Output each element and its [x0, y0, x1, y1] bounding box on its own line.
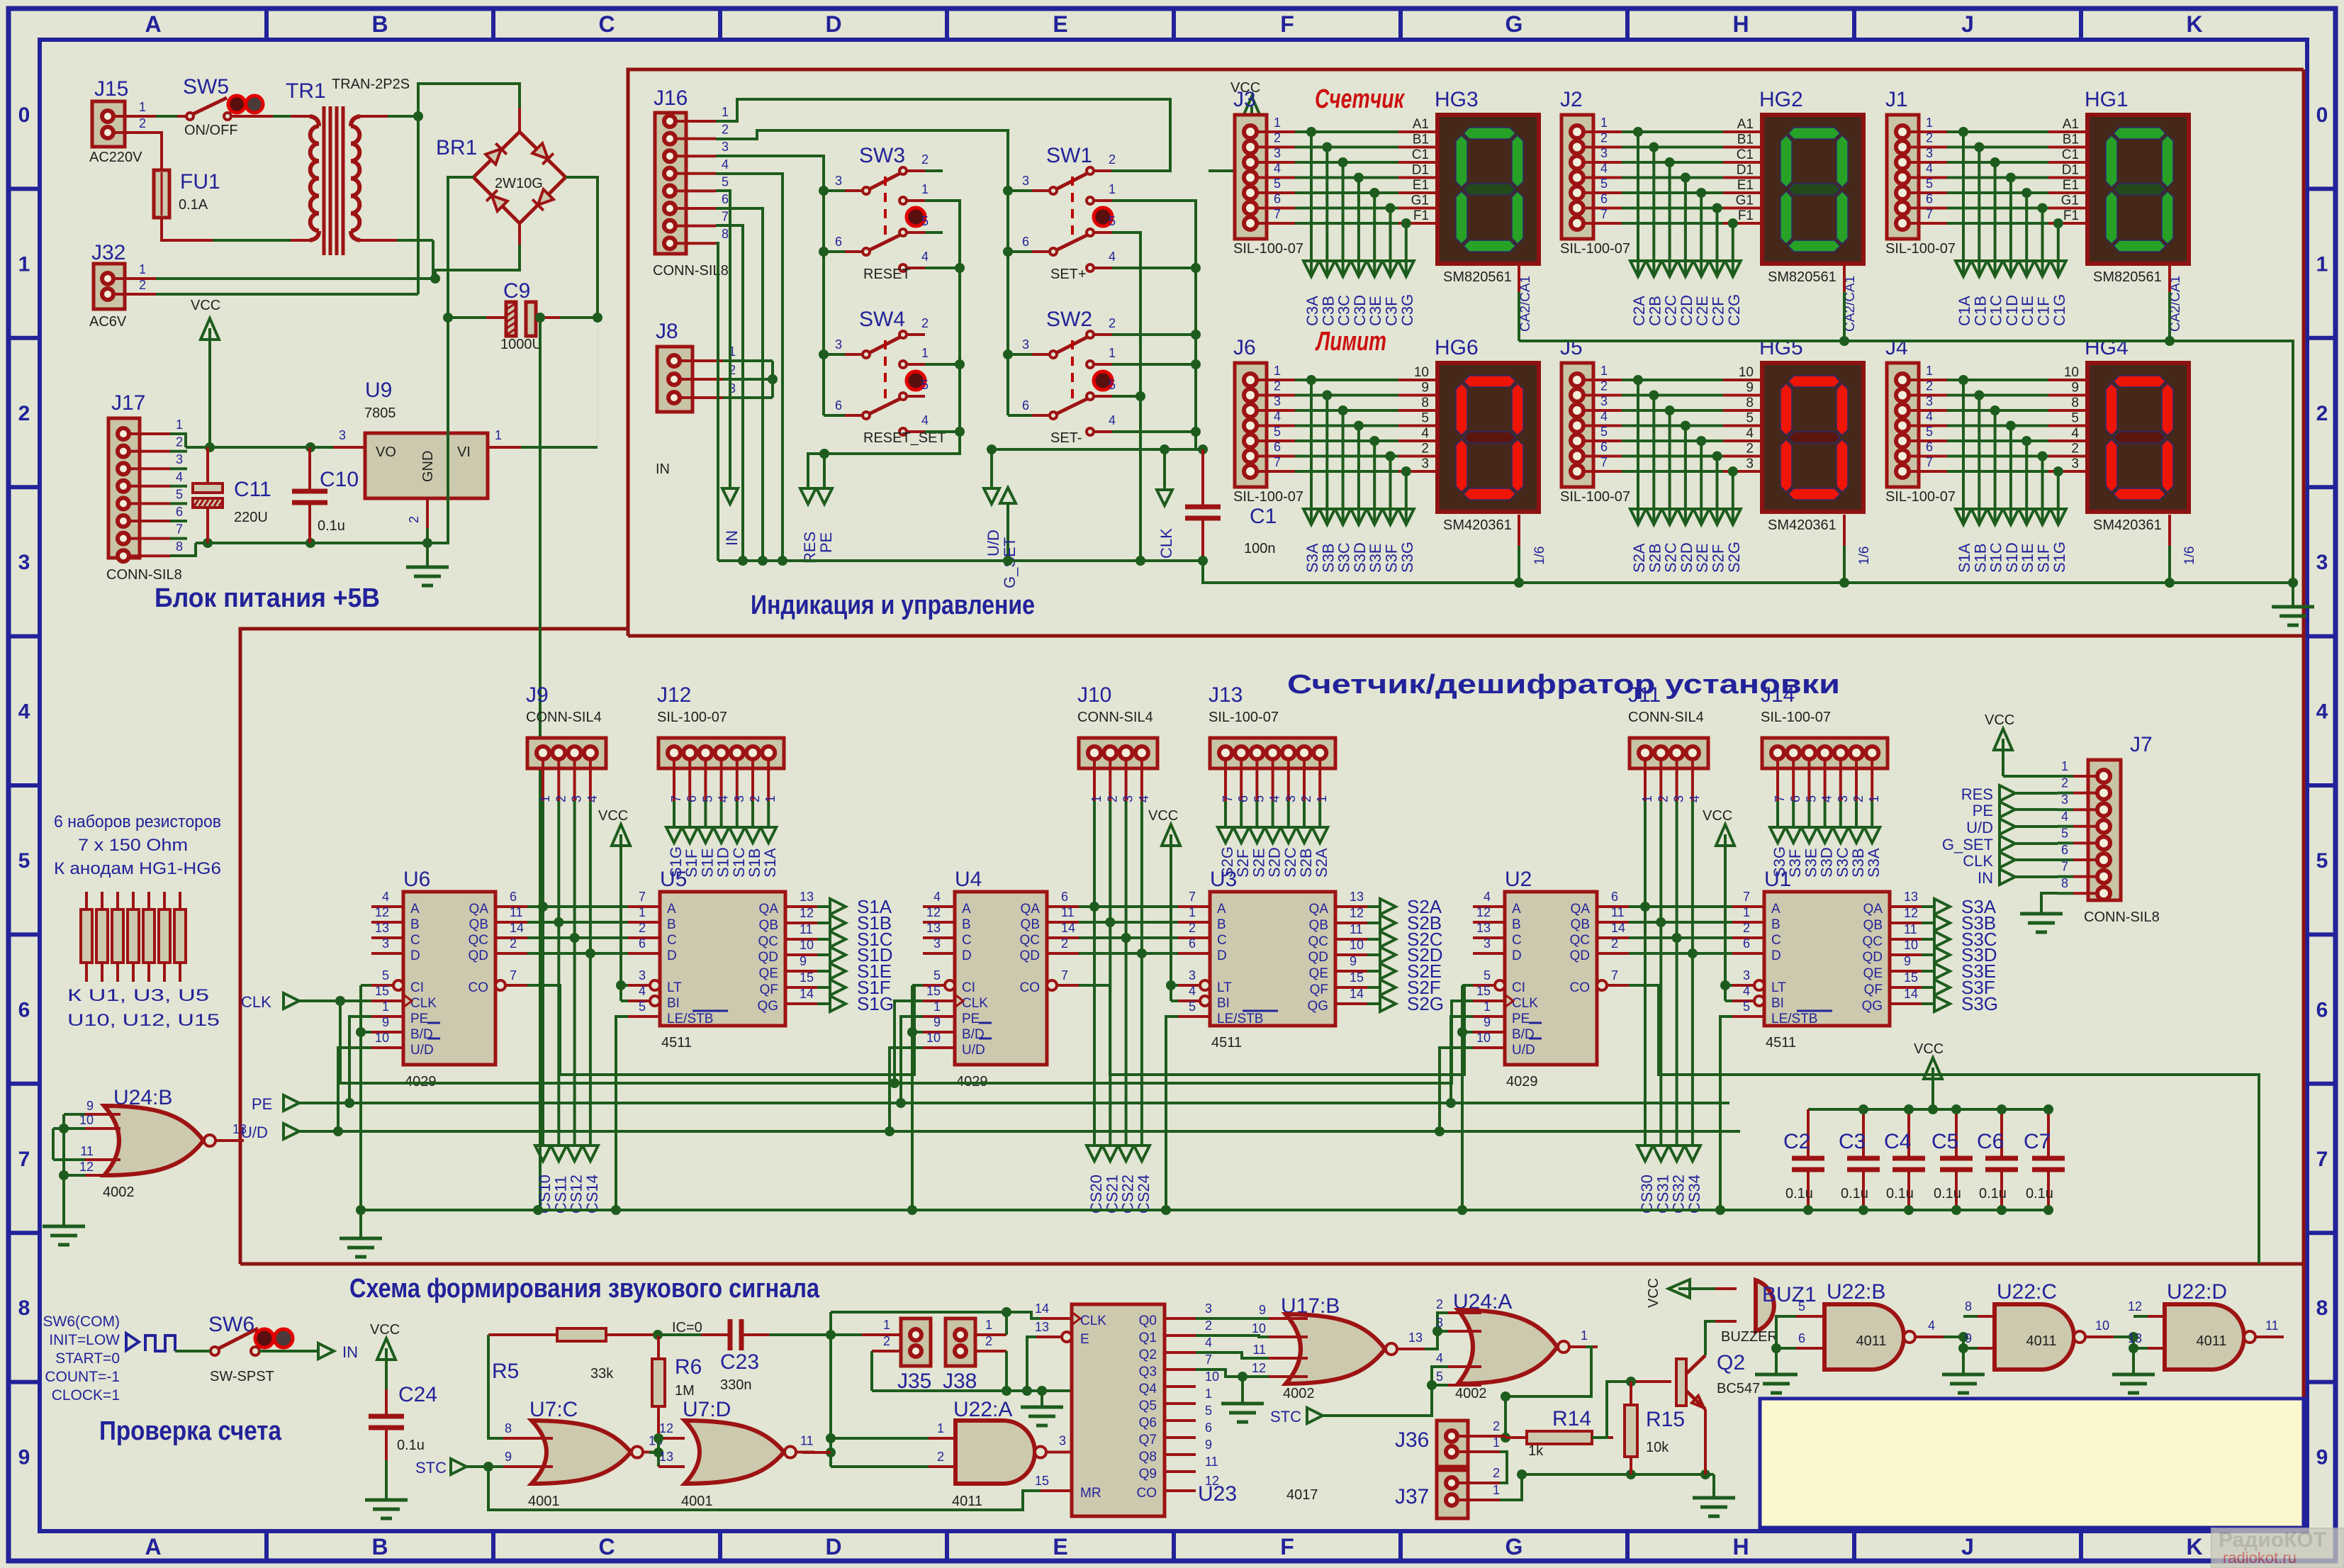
svg-text:B: B — [667, 917, 676, 932]
connector J9 — [526, 683, 606, 802]
svg-text:Q2: Q2 — [1717, 1351, 1745, 1374]
wire SET row to C1 node — [992, 448, 1203, 451]
svg-text:0: 0 — [2316, 103, 2328, 127]
wire VCC to U3 LT BI — [1166, 846, 1178, 1001]
wire CO U2 out — [1629, 985, 2259, 1264]
svg-text:SM820561: SM820561 — [1768, 269, 1836, 285]
svg-text:C1A: C1A — [1956, 296, 1973, 326]
svg-text:9: 9 — [933, 1015, 941, 1029]
wire U9 GND to ground — [426, 528, 429, 567]
terminal IN right — [318, 1343, 358, 1361]
svg-text:SIL-100-07: SIL-100-07 — [1885, 489, 1956, 505]
svg-text:RES: RES — [1961, 785, 1993, 803]
7-seg display HG6 — [1435, 336, 1547, 565]
power terminal VCC J7 — [1985, 712, 2058, 776]
svg-text:6: 6 — [835, 398, 842, 413]
svg-text:C1F: C1F — [2035, 296, 2053, 326]
svg-text:2: 2 — [1436, 1297, 1443, 1311]
signal arrow S3E — [1922, 961, 1996, 982]
svg-text:6: 6 — [1205, 1421, 1212, 1435]
svg-text:GND: GND — [420, 451, 436, 482]
svg-text:S1C: S1C — [1987, 542, 2005, 573]
svg-text:5: 5 — [1274, 425, 1281, 439]
wire J6 pin6 to HG6 — [1257, 440, 1437, 461]
svg-text:U/D: U/D — [985, 530, 1002, 556]
svg-text:2: 2 — [1746, 442, 1754, 457]
svg-text:4011: 4011 — [2196, 1333, 2226, 1349]
svg-text:4: 4 — [1137, 795, 1151, 802]
svg-text:S2A: S2A — [1630, 543, 1648, 573]
wire U1 LE strobe to bus — [1715, 1017, 1732, 1215]
svg-text:CA2/CA1: CA2/CA1 — [1518, 276, 1533, 332]
wire J15 pin2 to fuse — [113, 131, 149, 134]
svg-text:J36: J36 — [1395, 1428, 1429, 1452]
svg-text:QF: QF — [760, 982, 778, 997]
svg-text:2: 2 — [921, 316, 929, 330]
svg-text:QA: QA — [1571, 902, 1591, 917]
wire segment drop S2B — [1646, 396, 1661, 525]
wire QD bus x569 — [527, 948, 628, 958]
svg-text:7: 7 — [2061, 860, 2068, 874]
wire segment drop S2F — [1710, 457, 1725, 525]
svg-text:5: 5 — [1189, 999, 1196, 1014]
svg-text:12: 12 — [800, 906, 814, 920]
power terminal VCC capacitors — [1914, 1041, 1944, 1114]
svg-text:D: D — [825, 1534, 841, 1559]
svg-text:C2G: C2G — [1725, 294, 1743, 326]
ground E area — [1021, 1386, 1063, 1426]
svg-text:13: 13 — [1476, 921, 1491, 935]
wire segment drop C2E — [1693, 193, 1709, 276]
svg-text:C10: C10 — [320, 468, 359, 491]
svg-text:E1: E1 — [2063, 178, 2079, 193]
svg-text:4011: 4011 — [2026, 1333, 2056, 1349]
wire J4 pin7 to HG4 — [1909, 455, 2087, 476]
svg-text:C: C — [667, 933, 677, 948]
svg-text:CS30: CS30 — [1638, 1175, 1656, 1214]
wire segment SW left column — [824, 414, 845, 417]
svg-text:U9: U9 — [365, 379, 392, 402]
power terminal VCC buzzer — [1646, 1278, 1690, 1308]
svg-text:9: 9 — [1205, 1438, 1212, 1452]
svg-text:9: 9 — [1746, 381, 1754, 396]
wire J7 pin8 to ground — [2041, 893, 2058, 914]
connector J6 — [1233, 336, 1303, 505]
svg-text:CO: CO — [469, 980, 489, 995]
terminal RES J7 — [1961, 785, 2058, 803]
svg-text:C: C — [1217, 933, 1227, 948]
svg-text:3: 3 — [1672, 795, 1686, 802]
title block area — [1760, 1399, 2304, 1528]
svg-text:C5: C5 — [1931, 1130, 1958, 1153]
svg-text:CI: CI — [1512, 980, 1525, 995]
wire segment column CS34 — [1685, 801, 1700, 1161]
svg-text:BUZ1: BUZ1 — [1762, 1283, 1817, 1306]
svg-text:CONN-SIL4: CONN-SIL4 — [1628, 710, 1704, 725]
counter U6 4029 — [371, 868, 527, 1090]
wire segment drop C3G — [1398, 223, 1414, 276]
svg-text:10: 10 — [1476, 1031, 1491, 1045]
svg-text:S3C: S3C — [1335, 542, 1353, 573]
wire STC net down to MR — [488, 1467, 1041, 1510]
wire J36 pin1 to J37 pin2 — [1500, 1452, 1507, 1483]
svg-text:0.1u: 0.1u — [2026, 1186, 2053, 1202]
svg-text:12: 12 — [79, 1160, 94, 1174]
svg-text:3: 3 — [1926, 146, 1933, 160]
counter U23 4017 — [1035, 1301, 1318, 1516]
svg-text:10: 10 — [2095, 1318, 2109, 1333]
svg-text:S2G: S2G — [1725, 542, 1743, 573]
svg-text:S1G: S1G — [857, 993, 894, 1014]
svg-text:U22:D: U22:D — [2167, 1280, 2227, 1304]
svg-text:VCC: VCC — [1914, 1041, 1944, 1057]
svg-text:SIL-100-07: SIL-100-07 — [1560, 489, 1630, 505]
svg-text:3: 3 — [1746, 457, 1754, 471]
frame column ticks top — [267, 9, 2081, 40]
svg-text:C3F: C3F — [1383, 296, 1401, 326]
svg-text:12: 12 — [1252, 1361, 1266, 1375]
svg-text:G1: G1 — [1736, 194, 1754, 208]
svg-text:3: 3 — [1484, 936, 1491, 951]
svg-text:QC: QC — [469, 933, 489, 948]
connector J1 — [1885, 88, 1956, 257]
svg-text:C1D: C1D — [2003, 295, 2021, 326]
signal arrow S1E — [817, 961, 892, 982]
wire J4 pin4 to HG4 — [1909, 410, 2087, 431]
svg-text:1: 1 — [538, 795, 552, 802]
terminal IN J7 — [1978, 869, 2058, 887]
ground U22:C — [1942, 1373, 1985, 1377]
svg-text:J4: J4 — [1885, 336, 1908, 359]
ground U6 area — [340, 1210, 382, 1257]
svg-text:2: 2 — [176, 435, 183, 449]
svg-text:1: 1 — [139, 100, 146, 114]
svg-text:A1: A1 — [1737, 117, 1754, 132]
wire segment drop S1F — [2035, 457, 2051, 525]
wire segment drop S2E — [1693, 441, 1709, 525]
svg-text:5: 5 — [1252, 795, 1266, 802]
svg-text:8: 8 — [176, 539, 183, 554]
svg-text:12: 12 — [659, 1421, 673, 1435]
svg-text:8: 8 — [2316, 1297, 2328, 1320]
wire segment S1F drop — [682, 801, 697, 843]
terminal U/D down — [984, 449, 1002, 556]
7-seg display HG2 — [1759, 88, 1863, 332]
svg-text:PE: PE — [410, 1012, 428, 1026]
wire J32 pin1 line — [113, 277, 156, 280]
svg-text:A: A — [1771, 902, 1781, 917]
svg-text:10: 10 — [2064, 365, 2079, 380]
connector J10 — [1077, 683, 1157, 802]
bridge rectifier BR1 — [436, 132, 566, 223]
svg-text:11: 11 — [1205, 1455, 1218, 1469]
capacitor C5 — [1931, 1104, 1973, 1215]
svg-text:4: 4 — [2071, 426, 2079, 441]
svg-text:2: 2 — [1600, 131, 1608, 145]
svg-text:A: A — [410, 902, 420, 917]
wire segment drop S1B — [1971, 396, 1987, 525]
svg-text:100n: 100n — [1244, 541, 1276, 556]
svg-text:1: 1 — [1189, 905, 1196, 919]
resistor R6 — [652, 1335, 702, 1467]
svg-text:PE: PE — [1973, 802, 1993, 819]
svg-text:S2D: S2D — [1678, 542, 1695, 573]
svg-text:4: 4 — [176, 470, 183, 484]
svg-text:3: 3 — [1059, 1434, 1066, 1448]
wire HG1 common anode — [2168, 265, 2171, 341]
svg-text:LE/STB: LE/STB — [1771, 1012, 1817, 1026]
svg-text:6: 6 — [1926, 440, 1933, 454]
svg-text:1: 1 — [921, 182, 929, 196]
svg-text:QC: QC — [1570, 933, 1591, 948]
svg-text:7 x 150 Ohm: 7 x 150 Ohm — [78, 836, 188, 855]
svg-text:CLK: CLK — [1512, 996, 1538, 1011]
wire segment drop C2D — [1678, 178, 1693, 277]
svg-text:CONN-SIL8: CONN-SIL8 — [106, 567, 182, 583]
counter U2 4029 — [1473, 868, 1629, 1090]
svg-text:QD: QD — [1570, 948, 1591, 963]
svg-text:F1: F1 — [2063, 208, 2079, 223]
svg-text:5: 5 — [18, 849, 30, 873]
svg-text:6: 6 — [1600, 440, 1608, 454]
terminal U/D left — [241, 1124, 299, 1141]
svg-text:1: 1 — [2316, 252, 2328, 276]
svg-text:C2D: C2D — [1678, 295, 1695, 326]
wire J15 pin1 to SW5 — [113, 115, 156, 118]
connector J35 — [862, 1318, 931, 1393]
svg-text:5: 5 — [639, 999, 646, 1014]
svg-text:QD: QD — [469, 948, 489, 963]
7-seg display HG1 — [2085, 88, 2189, 332]
svg-text:4: 4 — [1484, 890, 1491, 904]
wire segment column CS24 — [1134, 801, 1150, 1161]
svg-text:13: 13 — [232, 1122, 247, 1136]
svg-text:VCC: VCC — [370, 1322, 400, 1338]
gate U24:B 4002 — [79, 1086, 247, 1200]
svg-text:8: 8 — [1746, 396, 1754, 410]
svg-text:B/D: B/D — [1512, 1027, 1535, 1042]
connector J3 — [1233, 88, 1303, 257]
svg-text:6: 6 — [18, 998, 30, 1021]
svg-text:IN: IN — [723, 530, 741, 546]
wire segment S1B drop — [745, 801, 761, 843]
svg-text:LE/STB: LE/STB — [1217, 1012, 1263, 1026]
wire J16 pin1 top bus — [716, 99, 1170, 171]
svg-text:QC: QC — [1863, 934, 1883, 949]
svg-text:0.1u: 0.1u — [1979, 1186, 2007, 1202]
wire J1 pin6 to HG1 — [1909, 192, 2087, 213]
svg-text:CLK: CLK — [1963, 852, 1993, 870]
svg-text:9: 9 — [1904, 954, 1911, 968]
svg-text:G: G — [1505, 11, 1523, 37]
svg-text:A: A — [667, 902, 676, 917]
svg-text:E: E — [1053, 1534, 1067, 1559]
svg-text:2: 2 — [554, 795, 568, 802]
svg-text:9: 9 — [18, 1446, 30, 1469]
svg-text:IN: IN — [1978, 869, 1993, 887]
wire J35 pin2 to E net — [870, 1351, 873, 1391]
svg-text:PE: PE — [962, 1012, 980, 1026]
terminal CLK J7 — [1963, 852, 2058, 870]
wire R14 to Q2 base — [1592, 1377, 1671, 1438]
svg-text:INIT=LOW: INIT=LOW — [49, 1332, 120, 1348]
svg-text:4: 4 — [717, 795, 731, 802]
svg-text:6: 6 — [176, 505, 183, 519]
gate U22:A 4011 — [937, 1398, 1075, 1509]
wire segment column CS22 — [1118, 801, 1134, 1161]
svg-text:3: 3 — [1121, 795, 1135, 802]
svg-text:QA: QA — [1863, 902, 1883, 917]
svg-text:10: 10 — [1414, 365, 1429, 380]
svg-text:IC=0: IC=0 — [672, 1320, 702, 1335]
svg-text:1: 1 — [1274, 116, 1281, 130]
svg-text:QC: QC — [1020, 933, 1041, 948]
wire HG6 common anode to bus — [1518, 515, 1520, 583]
svg-text:HG1: HG1 — [2085, 88, 2129, 111]
svg-text:3: 3 — [639, 968, 646, 982]
svg-text:Индикация и управление: Индикация и управление — [751, 590, 1035, 620]
switch SW1 — [1022, 144, 1116, 282]
svg-text:S2F: S2F — [1710, 544, 1727, 573]
svg-text:1: 1 — [1926, 116, 1933, 130]
svg-text:3: 3 — [1284, 795, 1298, 802]
wire segment drop S2G — [1725, 471, 1741, 525]
svg-text:7: 7 — [669, 795, 683, 802]
svg-text:U1: U1 — [1764, 868, 1791, 891]
wire U7:D out to feedback node — [802, 1451, 831, 1454]
svg-text:3: 3 — [1436, 1316, 1443, 1330]
svg-text:S1A: S1A — [761, 848, 779, 878]
wire J2 pin7 to HG2 — [1583, 207, 1762, 228]
svg-text:13: 13 — [375, 921, 389, 935]
svg-text:12: 12 — [926, 905, 941, 919]
svg-text:C23: C23 — [720, 1350, 759, 1374]
svg-text:2: 2 — [985, 1334, 992, 1348]
svg-text:4: 4 — [1928, 1318, 1935, 1333]
wire J4 pin3 to HG4 — [1909, 394, 2087, 415]
svg-text:C4: C4 — [1884, 1130, 1911, 1153]
capacitor C3 — [1839, 1104, 1880, 1215]
voltage regulator U9 — [333, 379, 521, 528]
svg-text:2: 2 — [139, 116, 146, 130]
wire J16 pin5 to IN column — [716, 191, 730, 488]
svg-text:1: 1 — [1089, 795, 1104, 802]
wire J6 pin4 to HG6 — [1257, 410, 1437, 431]
svg-text:C: C — [962, 933, 972, 948]
svg-text:S1E: S1E — [2019, 543, 2036, 573]
ground C24 — [365, 1499, 408, 1502]
wire J3 pin1 to HG3 — [1257, 116, 1437, 137]
wire segment S3E drop — [1801, 801, 1817, 843]
svg-text:1: 1 — [2061, 759, 2068, 773]
svg-text:2: 2 — [921, 152, 929, 167]
svg-text:U22:A: U22:A — [953, 1398, 1012, 1421]
ground U22:D — [2112, 1373, 2155, 1377]
svg-text:1: 1 — [1493, 1435, 1500, 1450]
wire PE column — [823, 454, 826, 488]
counter U4 4029 — [923, 868, 1079, 1090]
svg-text:J32: J32 — [91, 241, 125, 264]
svg-text:A: A — [1217, 902, 1226, 917]
svg-text:2: 2 — [1109, 316, 1116, 330]
svg-text:BC547: BC547 — [1717, 1381, 1760, 1396]
svg-text:К анодам HG1-HG6: К анодам HG1-HG6 — [54, 859, 221, 878]
svg-text:6: 6 — [685, 795, 699, 802]
wire J17 pin1 to VO rail — [170, 434, 186, 447]
svg-text:C3D: C3D — [1351, 295, 1369, 326]
svg-text:3: 3 — [1022, 174, 1029, 188]
wire segment drop S3C — [1335, 410, 1351, 525]
svg-text:5: 5 — [921, 378, 929, 392]
svg-text:5: 5 — [1109, 214, 1116, 228]
capacitor C10 — [292, 447, 359, 543]
svg-text:5: 5 — [1926, 177, 1933, 191]
svg-text:3: 3 — [2316, 551, 2328, 574]
signal arrow S2A — [1367, 896, 1442, 917]
svg-text:11: 11 — [510, 905, 523, 919]
wire segment S3A drop — [1864, 801, 1880, 843]
wire segment drop S1G — [2051, 471, 2066, 525]
svg-text:E: E — [1053, 11, 1067, 37]
svg-text:4: 4 — [639, 984, 646, 998]
svg-text:IN: IN — [342, 1343, 358, 1361]
svg-text:J13: J13 — [1209, 683, 1243, 707]
wire segment S3B drop — [1849, 801, 1864, 843]
svg-text:SIL-100-07: SIL-100-07 — [1233, 241, 1303, 257]
wire segment S2D drop — [1265, 801, 1281, 843]
svg-text:1: 1 — [985, 1318, 992, 1332]
wire segment drop C1C — [1987, 162, 2003, 276]
svg-text:1: 1 — [1867, 795, 1881, 802]
svg-text:CS31: CS31 — [1654, 1175, 1671, 1214]
svg-text:9: 9 — [505, 1450, 512, 1464]
7-seg display HG3 — [1435, 88, 1539, 332]
svg-text:C2E: C2E — [1693, 296, 1711, 326]
svg-text:7: 7 — [18, 1148, 30, 1171]
wire segment S2C drop — [1281, 801, 1296, 843]
svg-text:8: 8 — [2071, 396, 2079, 410]
svg-text:CS24: CS24 — [1135, 1175, 1153, 1214]
svg-text:7: 7 — [1189, 890, 1196, 904]
svg-text:SW6(COM): SW6(COM) — [43, 1314, 120, 1330]
wire segment SW right column — [1008, 414, 1032, 417]
wire QD bus x2123 — [1629, 948, 1732, 958]
svg-text:F: F — [1280, 1534, 1294, 1559]
wire segment column CS12 — [567, 801, 583, 1161]
svg-text:F: F — [1280, 11, 1294, 37]
svg-text:CONN-SIL4: CONN-SIL4 — [526, 710, 602, 725]
svg-text:QD: QD — [758, 950, 779, 965]
svg-text:SIL-100-07: SIL-100-07 — [657, 710, 727, 725]
svg-text:4: 4 — [1600, 162, 1608, 176]
svg-text:4: 4 — [1926, 162, 1933, 176]
svg-text:3: 3 — [1189, 968, 1196, 982]
terminal PE left — [252, 1095, 299, 1113]
wire J5 pin4 to HG5 — [1583, 410, 1762, 431]
svg-text:6: 6 — [1236, 795, 1250, 802]
wire segment drop C1E — [2019, 193, 2034, 276]
svg-text:3: 3 — [1926, 394, 1933, 408]
wire J5 pin5 to HG5 — [1583, 425, 1762, 446]
wire segment S1E drop — [697, 801, 713, 843]
connector J13 — [1209, 683, 1335, 802]
svg-text:5: 5 — [2061, 826, 2068, 840]
svg-text:R14: R14 — [1552, 1407, 1591, 1430]
svg-text:C1B: C1B — [1971, 296, 1989, 326]
svg-text:12: 12 — [1350, 906, 1364, 920]
wire J6 pin5 to HG6 — [1257, 425, 1437, 446]
svg-text:3: 3 — [835, 174, 842, 188]
